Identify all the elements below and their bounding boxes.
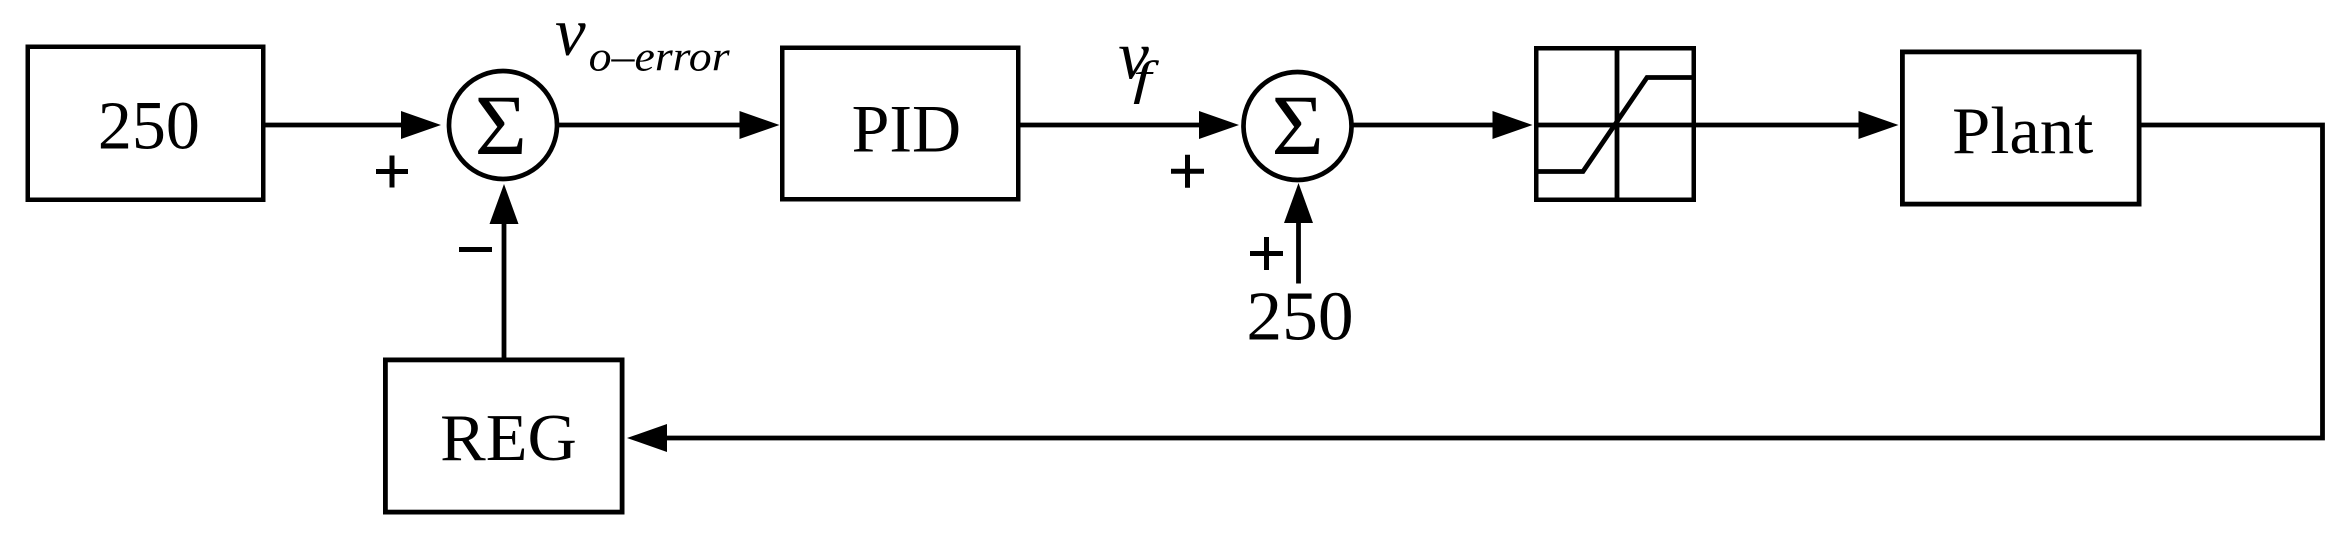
plus sign at sum2 bottom input (1250, 237, 1283, 270)
saturation block frame (1536, 48, 1694, 200)
block REG (feedback regulator) (385, 360, 622, 512)
block Plant (1902, 52, 2139, 204)
saturation block horizontal axis (1534, 123, 1696, 128)
svg-text:Σ: Σ (1272, 77, 1324, 173)
svg-text:PID: PID (852, 92, 962, 167)
wire constant 250 to sum2 bottom (1296, 221, 1301, 284)
block 250 (setpoint source) (28, 47, 264, 200)
saturation curve (1534, 78, 1696, 172)
feedback wire Plant output to REG (666, 125, 2323, 438)
arrowhead into saturation block (1493, 111, 1533, 139)
svg-text:v: v (555, 0, 586, 70)
summing junction sum1 (449, 71, 557, 179)
svg-text:250: 250 (1246, 279, 1353, 356)
wire setpoint to sum1 (266, 123, 406, 128)
plus sign at sum1 left input (376, 156, 408, 188)
arrowhead into PID (740, 111, 780, 139)
svg-text:250: 250 (98, 87, 200, 163)
wire REG to sum1 (502, 221, 507, 358)
arrowhead into REG (627, 424, 667, 452)
arrowhead into Plant (1859, 111, 1899, 139)
wire sum1 to PID (559, 123, 742, 128)
arrowhead into sum1 (401, 111, 441, 139)
svg-text:o–error: o–error (589, 34, 730, 81)
arrowhead into sum2 (1199, 111, 1239, 139)
svg-text:Plant: Plant (1952, 94, 2093, 168)
arrowhead into sum1 bottom (490, 184, 519, 224)
svg-text:REG: REG (440, 401, 577, 475)
minus sign at sum1 bottom input (459, 247, 492, 252)
svg-text:Σ: Σ (475, 77, 527, 173)
wire PID to sum2 (1021, 123, 1202, 128)
summing junction sum2 (1244, 72, 1352, 180)
wire saturation block to Plant (1696, 123, 1860, 128)
plus sign at sum2 left input (1171, 155, 1204, 188)
block PID controller (782, 48, 1018, 200)
arrowhead into sum2 bottom (1284, 183, 1313, 223)
wire sum2 to saturation block (1352, 123, 1495, 128)
saturation block vertical axis (1615, 46, 1620, 202)
